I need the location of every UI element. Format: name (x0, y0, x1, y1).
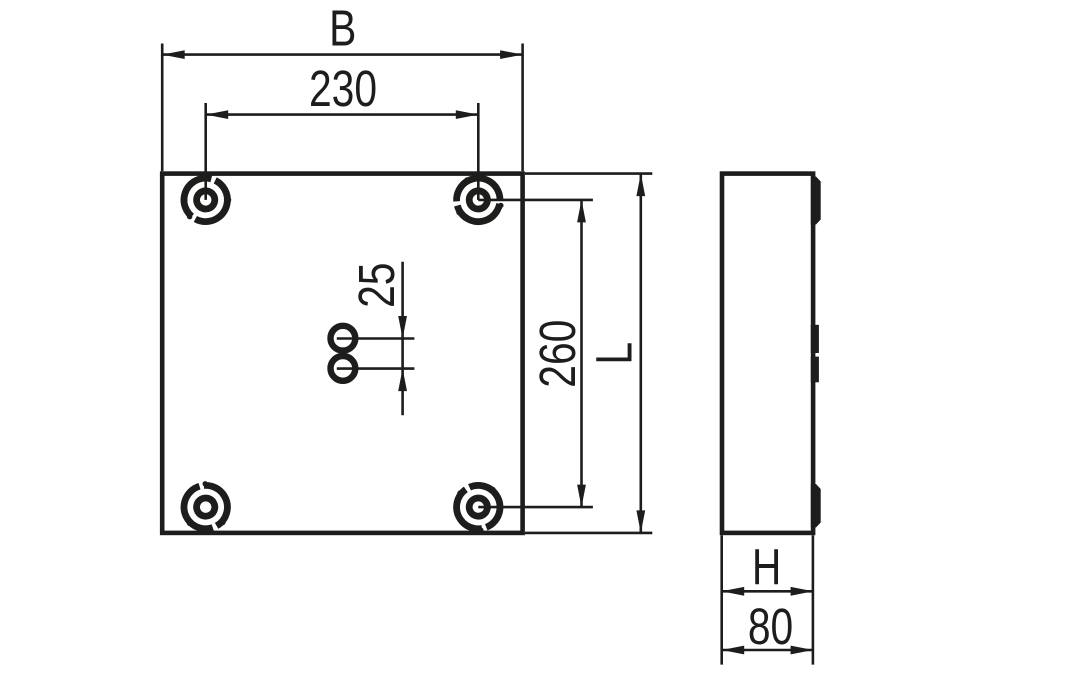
svg-text:L: L (585, 342, 642, 365)
side view tab top (811, 177, 821, 225)
extension line B right (521, 44, 524, 172)
dimension line B (162, 53, 522, 56)
extension line L top (525, 172, 652, 175)
plate side view outline (722, 174, 813, 533)
svg-text:260: 260 (529, 320, 586, 388)
plate front view outline (162, 174, 522, 533)
dimension line 260 (580, 200, 583, 507)
arrow 260 top (577, 200, 586, 223)
svg-text:25: 25 (348, 263, 405, 308)
svg-text:230: 230 (309, 59, 377, 116)
svg-text:B: B (329, 0, 356, 57)
arrow 25 upper (398, 316, 407, 339)
dimension line H (722, 590, 813, 593)
dimension line 230 (206, 113, 479, 116)
hole bottom-left (179, 477, 235, 535)
extension line L bottom (525, 532, 652, 535)
arrow 230 left (206, 110, 229, 119)
hole top-right (447, 170, 511, 233)
side view tab bottom (811, 484, 821, 528)
arrow B left (162, 50, 185, 59)
side view tab middle lower (811, 357, 819, 383)
dimension line L (639, 174, 642, 533)
arrow 80 right (791, 646, 814, 655)
extension line 230 right (477, 103, 480, 200)
extension line 260 bottom (478, 506, 593, 509)
extension line 25 lower (337, 367, 415, 370)
arrow 25 lower (398, 369, 407, 392)
arrow 260 bottom (577, 485, 586, 508)
arrow 80 left (722, 646, 745, 655)
hole top-left (172, 169, 236, 232)
arrow 230 right (456, 110, 479, 119)
extension line B left (161, 44, 164, 172)
extension line 260 top (478, 199, 593, 202)
arrow B right (500, 50, 522, 59)
arrow L bottom (636, 510, 645, 533)
arrow L top (636, 174, 645, 197)
svg-text:80: 80 (748, 598, 793, 655)
extension line 230 left (204, 103, 207, 200)
dimension line 80 (722, 649, 813, 652)
side view tab middle upper (811, 325, 819, 353)
arrow H left (722, 587, 745, 596)
extension line H right (812, 535, 815, 664)
center hole upper (331, 326, 356, 351)
extension line 25 upper (337, 337, 415, 340)
svg-text:H: H (752, 538, 781, 595)
dimension line 25 (401, 262, 404, 416)
hole bottom-right (451, 481, 503, 536)
extension line H left (720, 535, 723, 664)
arrow H right (791, 587, 814, 596)
center hole lower (331, 356, 356, 381)
